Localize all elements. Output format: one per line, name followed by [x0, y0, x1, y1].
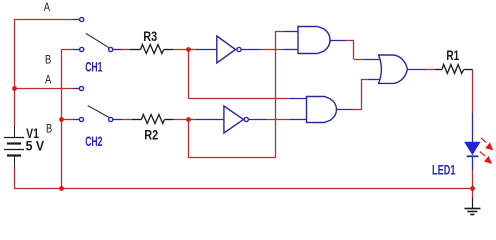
svg-text:R3: R3	[143, 29, 157, 45]
wire: CH2-B horizontal	[61, 119, 73, 121]
resistor R1	[436, 65, 473, 74]
svg-text:B: B	[45, 53, 51, 66]
wire: node A vertical drop x=188	[188, 49, 190, 99]
wire: U1 output to AND1 bottom input	[261, 49, 284, 51]
resistor R3	[130, 45, 173, 54]
svg-text:B: B	[46, 122, 52, 135]
wire: R2 to node B (U2 input)	[173, 119, 196, 121]
svg-text:CH2: CH2	[85, 135, 102, 149]
wire: CH2-A horizontal	[14, 88, 73, 90]
node dot: B-rail / ground rail junction (61,188)	[59, 186, 64, 191]
wire: CH1-B horizontal	[61, 49, 73, 51]
wire: AND1 top input red from x=276	[276, 31, 284, 33]
wire: node B vertical rise x=276 to AND1 top input	[275, 31, 277, 158]
resistor R2	[132, 115, 173, 124]
svg-text:A: A	[45, 73, 52, 86]
LED1 emission arrow 1	[481, 138, 493, 151]
inverter U1	[196, 36, 261, 63]
wire: CH1 pole to R3	[122, 49, 130, 51]
wire: R3 to node A (U1 input)	[173, 49, 196, 51]
wire: left +V vertical rail x=14	[14, 19, 16, 188]
battery V1	[4, 127, 24, 168]
inverter U2	[196, 106, 267, 133]
svg-text:R1: R1	[446, 47, 459, 63]
svg-text:R2: R2	[144, 127, 158, 143]
node dot: A-rail / CH2-A junction (14,88)	[12, 86, 17, 91]
node dot: B-rail / CH2-B junction (61,120)	[59, 117, 64, 122]
LED LED1	[465, 113, 480, 170]
AND gate U3 (top)	[284, 27, 346, 54]
wire: node A horizontal to AND2 top input	[188, 98, 290, 100]
node dot: LED / ground rail junction (472,188)	[470, 186, 475, 191]
LED1 emission arrow 2	[480, 152, 492, 164]
wire: B rail vertical x=61	[61, 49, 63, 188]
wire: node B bottom horizontal to x=276	[188, 157, 276, 159]
wire: R1 to LED vertical x=472	[472, 70, 474, 114]
wire: OR output to R1	[426, 69, 436, 71]
wire: AND2 output to OR bottom input	[353, 79, 368, 110]
AND gate U4 (bottom)	[290, 97, 353, 123]
svg-text:A: A	[44, 1, 51, 14]
wire: AND1 output to OR top input	[346, 41, 365, 60]
ground	[465, 198, 481, 215]
OR gate U5	[364, 55, 426, 83]
wire: bottom ground rail	[14, 188, 472, 190]
wire: node B vertical drop x=188	[188, 119, 190, 158]
svg-text:CH1: CH1	[85, 61, 102, 75]
wire: U2 output to AND2 bottom input	[267, 119, 290, 121]
wire: CH2 pole to R2	[122, 119, 132, 121]
wire: LED cathode to ground rail	[472, 170, 474, 198]
switch CH1	[73, 17, 123, 51]
node dot: node B after R2 (188,119)	[186, 117, 191, 122]
node dot: node A after R3 (188,49)	[186, 47, 191, 52]
svg-text:5 V: 5 V	[26, 138, 45, 154]
switch CH2	[73, 86, 122, 121]
wire: +V rail top horizontal to CH1-A	[14, 19, 73, 21]
svg-text:LED1: LED1	[432, 164, 456, 178]
